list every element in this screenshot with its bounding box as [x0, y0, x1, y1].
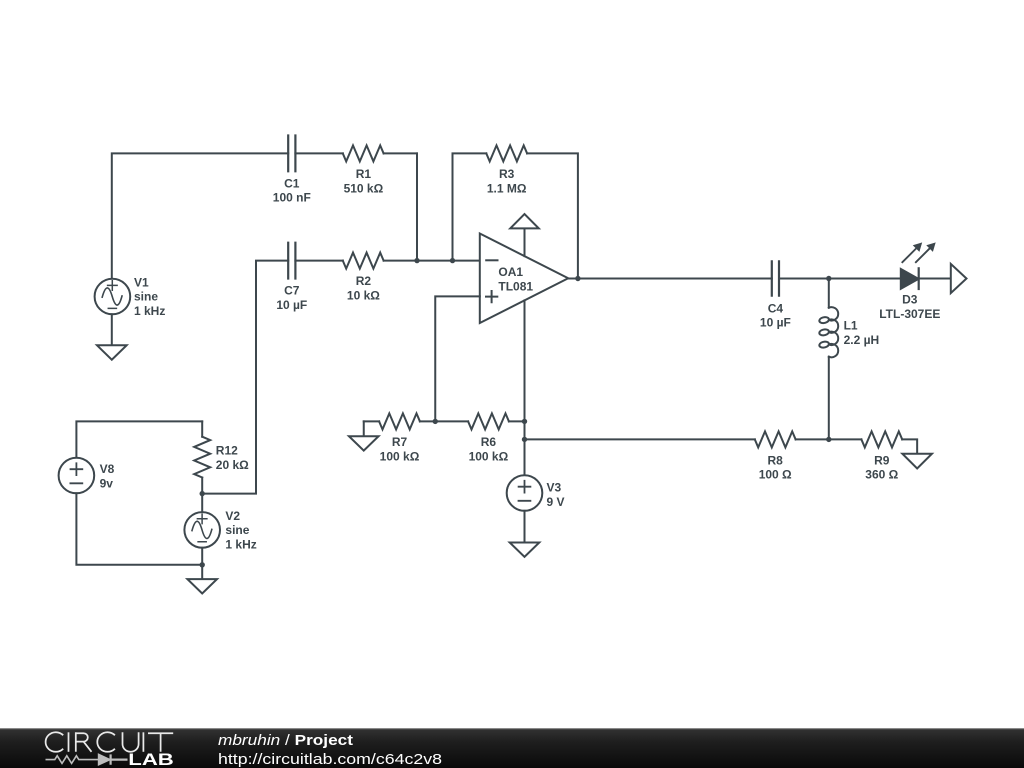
svg-text:V1: V1: [134, 275, 149, 289]
wire R6 right to V- node: [509, 420, 525, 422]
voltage source V1: [95, 279, 131, 315]
resistor R1: [343, 145, 384, 161]
svg-text:R3: R3: [499, 167, 515, 181]
wire R7 to R6: [420, 420, 468, 422]
svg-text:100 nF: 100 nF: [273, 191, 311, 205]
wire C7 left to V2/R12 node: [202, 261, 288, 494]
node R7/R6/+input junction: [433, 419, 438, 424]
svg-text:R6: R6: [481, 435, 497, 449]
wire R12 top lead: [201, 421, 203, 436]
svg-text:V8: V8: [100, 462, 115, 476]
svg-text:sine: sine: [134, 290, 158, 304]
wire C4 to LED D3: [779, 278, 901, 280]
wire L1 top: [828, 279, 830, 308]
wire V8 top to R12: [76, 421, 202, 457]
wire op-amp V- pin down: [524, 300, 526, 421]
svg-text:L1: L1: [844, 319, 858, 333]
ground at R7: [349, 421, 379, 450]
voltage source V8: [59, 458, 95, 494]
node output junction: [575, 276, 580, 281]
wire V2 top: [201, 494, 203, 512]
footer top highlight line: [0, 728, 1024, 729]
wire R2 to op-amp inverting input: [384, 260, 480, 262]
inductor L1: [819, 307, 838, 357]
node R3/R2 junction: [450, 258, 455, 263]
resistor R6: [468, 413, 509, 429]
wire R8 row from V3 branch: [525, 438, 755, 440]
wire L1 bottom: [828, 357, 830, 440]
node R6/V- junction: [522, 419, 527, 424]
op-amp OA1: [480, 234, 568, 324]
svg-text:R7: R7: [392, 435, 408, 449]
CircuitLab logo resistor-diode: [46, 754, 128, 764]
op-amp plus sign: [486, 291, 497, 302]
LED D3: [901, 243, 935, 289]
wire R8 to L1 node: [796, 438, 862, 440]
svg-text:20 kΩ: 20 kΩ: [216, 458, 249, 472]
svg-text:R2: R2: [356, 274, 372, 288]
svg-text:D3: D3: [902, 293, 918, 307]
ground under V2: [187, 565, 217, 594]
wire R9 to ground corner: [902, 439, 917, 453]
wire V2 bottom: [201, 548, 203, 565]
wire V8 bottom: [76, 493, 202, 565]
svg-text:1.1 MΩ: 1.1 MΩ: [487, 181, 527, 195]
voltage source V3: [507, 475, 543, 511]
node R1/R2 junction: [414, 258, 419, 263]
svg-text:10 kΩ: 10 kΩ: [347, 289, 380, 303]
svg-text:C7: C7: [284, 284, 300, 298]
svg-text:510 kΩ: 510 kΩ: [344, 181, 384, 195]
svg-text:1 kHz: 1 kHz: [225, 537, 256, 551]
wire V3 bottom: [524, 511, 526, 543]
node V3/R8 tap junction: [522, 437, 527, 442]
svg-text:100 kΩ: 100 kΩ: [469, 449, 509, 463]
svg-text:2.2 µH: 2.2 µH: [844, 333, 880, 347]
capacitor C4: [772, 261, 779, 295]
svg-text:mbruhin / Project: mbruhin / Project: [218, 732, 353, 749]
svg-text:OA1: OA1: [498, 265, 523, 279]
capacitor C7: [288, 243, 295, 279]
node C4/L1/D3 junction: [826, 276, 831, 281]
resistor R9: [861, 431, 902, 447]
op-amp power arrow: [510, 214, 539, 256]
wire R3 left branch: [453, 153, 487, 260]
svg-text:R1: R1: [356, 167, 372, 181]
wire R12 bottom lead: [201, 478, 203, 494]
wire D3 to output flag: [919, 278, 951, 280]
capacitor C1: [288, 136, 295, 172]
svg-text:R9: R9: [874, 453, 890, 467]
resistor R2: [343, 253, 384, 269]
svg-text:R12: R12: [216, 444, 238, 458]
svg-text:LTL-307EE: LTL-307EE: [879, 307, 940, 321]
wire R7 left lead: [364, 420, 379, 422]
svg-text:9v: 9v: [100, 476, 114, 490]
voltage source V2: [184, 512, 220, 548]
resistor R7: [379, 413, 420, 429]
wire C7 to R2: [295, 260, 342, 262]
svg-text:http://circuitlab.com/c64c2v8: http://circuitlab.com/c64c2v8: [218, 751, 442, 768]
svg-text:R8: R8: [768, 453, 784, 467]
ground at R9: [902, 454, 932, 469]
svg-text:C1: C1: [284, 176, 300, 190]
svg-text:100 Ω: 100 Ω: [759, 468, 792, 482]
output terminal flag: [951, 264, 967, 293]
node L1/R8/R9 junction: [826, 437, 831, 442]
wire op-amp output to C4: [568, 278, 772, 280]
wire C1 to R1: [295, 152, 342, 154]
ground under V3: [510, 543, 540, 557]
wire R1 corner down to inverting node: [416, 153, 418, 260]
svg-text:sine: sine: [225, 523, 249, 537]
svg-text:10 µF: 10 µF: [276, 298, 307, 312]
wire op-amp non-inverting input: [435, 296, 480, 421]
wire R1 to corner: [384, 152, 417, 154]
CircuitLab logo CIRCUIT: [46, 732, 174, 752]
node R12/V2 junction: [200, 491, 205, 496]
wire R3 right down to output node: [527, 153, 578, 278]
ground under V1: [97, 345, 127, 359]
wire V1 bottom: [111, 314, 113, 345]
svg-text:9 V: 9 V: [547, 495, 565, 509]
node V2/ground junction: [200, 562, 205, 567]
op-amp minus sign: [486, 259, 497, 261]
svg-text:V3: V3: [547, 481, 562, 495]
svg-text:C4: C4: [768, 301, 784, 315]
svg-text:V2: V2: [225, 509, 240, 523]
resistor R12: [194, 437, 210, 478]
resistor R3: [486, 145, 527, 161]
svg-text:360 Ω: 360 Ω: [865, 468, 898, 482]
wire V3 top: [524, 421, 526, 475]
wire V1 top to C1: [112, 153, 288, 278]
svg-text:LAB: LAB: [128, 750, 174, 768]
svg-text:100 kΩ: 100 kΩ: [380, 449, 420, 463]
svg-text:1 kHz: 1 kHz: [134, 304, 165, 318]
svg-text:10 µF: 10 µF: [760, 316, 791, 330]
svg-text:TL081: TL081: [498, 279, 533, 293]
resistor R8: [755, 431, 796, 447]
